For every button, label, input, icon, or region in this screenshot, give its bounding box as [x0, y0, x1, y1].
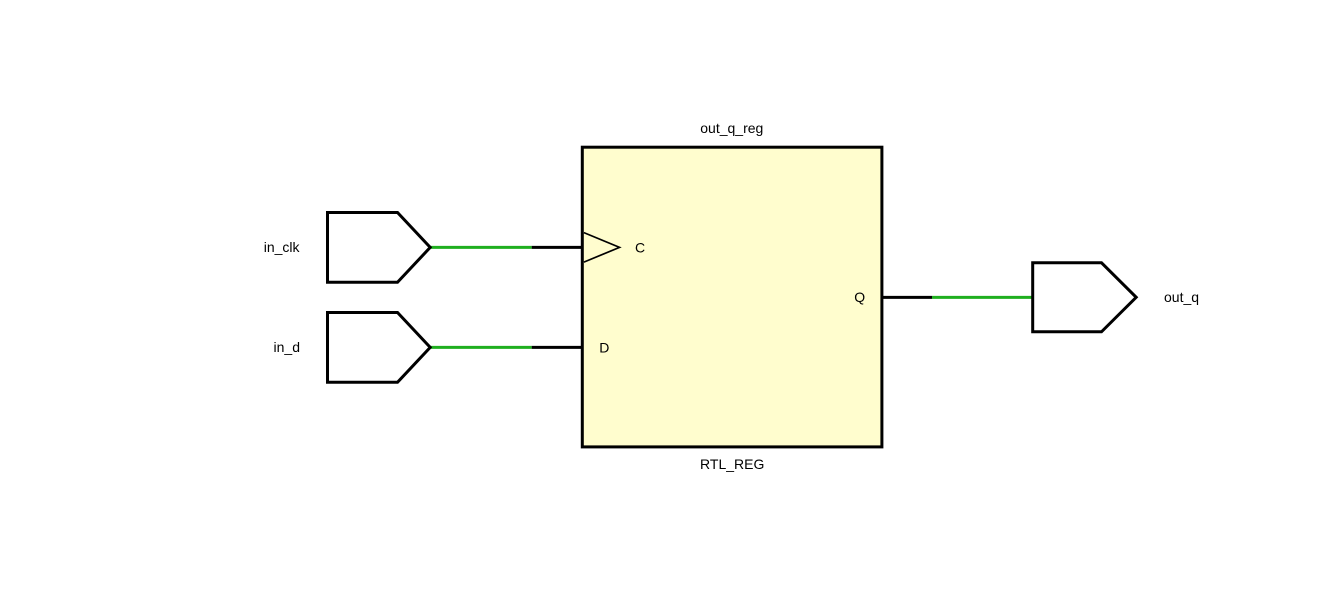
svg-text:RTL_REG: RTL_REG — [700, 456, 764, 472]
wire pin stub D (black segment) — [532, 346, 583, 349]
register cell out_q_reg (RTL_REG) body — [582, 147, 882, 447]
svg-text:D: D — [599, 340, 609, 356]
svg-text:out_q_reg: out_q_reg — [700, 120, 763, 136]
clock pin triangle C — [584, 233, 620, 263]
svg-text:in_d: in_d — [274, 339, 300, 355]
input port in_clk — [328, 213, 431, 283]
wire net out_q (green segment) — [932, 296, 1033, 299]
wire net in_clk (green segment) — [431, 246, 532, 249]
svg-text:in_clk: in_clk — [264, 239, 301, 255]
output port out_q — [1033, 263, 1137, 332]
svg-text:C: C — [635, 240, 645, 256]
svg-text:out_q: out_q — [1164, 289, 1199, 305]
wire pin stub C (black segment) — [532, 246, 583, 249]
wire net in_d (green segment) — [431, 346, 532, 349]
svg-text:Q: Q — [854, 289, 865, 305]
wire pin stub Q (black segment) — [882, 296, 932, 299]
input port in_d — [328, 313, 431, 383]
